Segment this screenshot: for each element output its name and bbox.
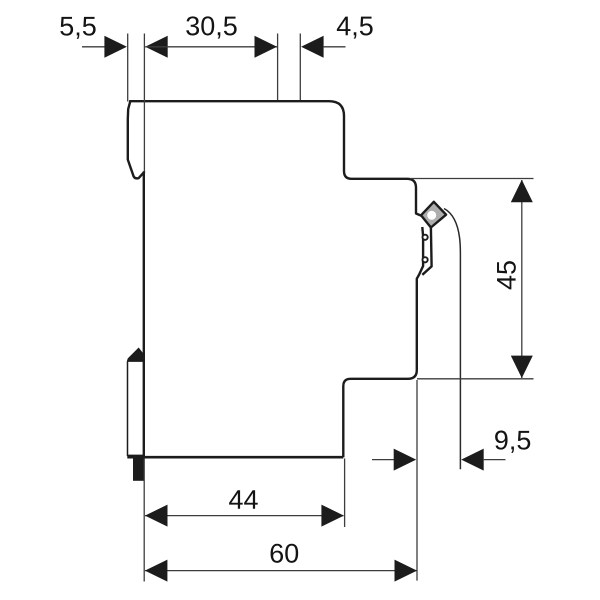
dim text 45 (rotated) xyxy=(497,261,516,289)
DIN latch body (thin rectangle) xyxy=(128,362,144,456)
extension line x=300.3 (4,5 right) xyxy=(299,34,301,101)
dim text 5,5 xyxy=(60,17,95,39)
dim text 4,5 xyxy=(337,17,373,39)
extension line x=144.4 top (5,5 right / 30,5 left) xyxy=(143,34,145,172)
extension line x=127.7 (5,5 left) xyxy=(127,34,129,102)
dim text 44 xyxy=(229,490,258,509)
arrow up at y=180 (45) xyxy=(511,180,533,203)
body outline upper (top edge, right side, step, upper front face) xyxy=(130,101,421,215)
extension line x=144.2 bottom (44/60 left) xyxy=(143,459,145,582)
arrow left at x=144.5 (44) xyxy=(145,505,168,527)
arrow left at x=144.4 (5,5 / 30,5) xyxy=(145,36,168,58)
body bottom edge xyxy=(127,456,343,459)
body lower front face and lower step xyxy=(343,227,423,457)
wire funnel curve xyxy=(444,209,460,470)
arrow right at x=416.6 (60) xyxy=(395,560,418,582)
extension line x=277.6 (30,5 right) xyxy=(277,34,279,101)
45 dimension vertical line xyxy=(521,180,523,378)
body left edge (vertical) xyxy=(143,172,145,457)
DIN latch bottom tab (filled) xyxy=(133,458,144,481)
dim text 30,5 xyxy=(186,16,236,38)
extension line y=178.5 (45 top) xyxy=(410,178,534,180)
arrow down at y=378 (45) xyxy=(511,356,533,379)
top dimension line tail left of 5,5 xyxy=(82,46,105,48)
terminal small hole lower xyxy=(423,257,428,262)
terminal screw diamond xyxy=(421,202,446,228)
9,5 dimension tail right xyxy=(483,459,506,461)
dim text 9,5 xyxy=(495,431,530,453)
44 dimension line xyxy=(145,515,344,517)
body outline left clip seat xyxy=(128,101,144,178)
extension line x=417 lower (9,5 left / 60 right) xyxy=(416,380,418,581)
60 dimension line xyxy=(145,570,417,572)
arrow right at x=277.6 (30,5) xyxy=(255,36,278,58)
arrow right at x=127.7 (5,5) xyxy=(104,36,127,58)
30,5 dimension line xyxy=(145,46,277,48)
dimension tail right of 4,5 arrow xyxy=(323,46,346,48)
terminal outer flap line xyxy=(422,228,431,275)
9,5 dimension tail left xyxy=(372,459,395,461)
arrow left at x=300.3 (4,5) xyxy=(301,36,324,58)
terminal small hole upper xyxy=(423,235,428,240)
arrow right at x=343.5 (44) xyxy=(321,505,344,527)
arrow left at x=144.4 (60) xyxy=(145,560,168,582)
arrow right at x=416.5 (9,5) xyxy=(394,449,417,471)
screw hole xyxy=(427,211,436,220)
DIN latch wedge (filled) xyxy=(127,348,144,361)
extension line x=344.6 (44 right) xyxy=(344,459,346,528)
arrow left at x=461 (9,5) xyxy=(461,449,484,471)
dim text 60 xyxy=(271,544,299,563)
extension line y=378.8 (45 bottom) xyxy=(417,378,534,380)
